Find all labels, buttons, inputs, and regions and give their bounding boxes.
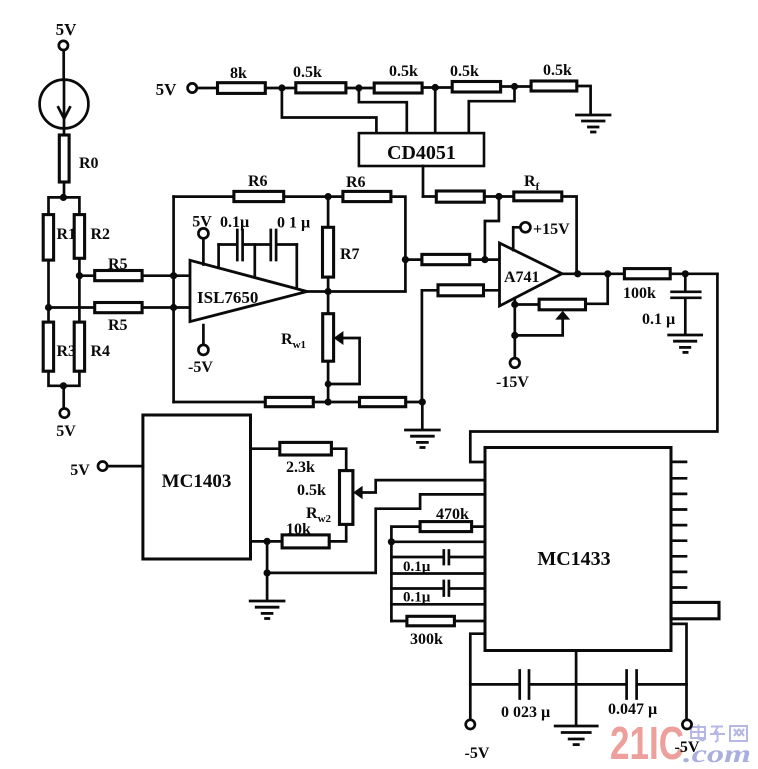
- svg-text:0.5k: 0.5k: [389, 63, 418, 80]
- capacitor 0.1u left bypass: [219, 214, 270, 277]
- svg-text:R2: R2: [91, 226, 111, 243]
- wire: [406, 401, 423, 404]
- wire MC1433 ground lead: [575, 651, 578, 726]
- wire: [484, 195, 514, 198]
- ground ladder right: [577, 115, 611, 132]
- node ladder D: [511, 83, 518, 90]
- svg-text:5V: 5V: [70, 462, 90, 479]
- node 5V ladder label: [156, 80, 178, 99]
- resistor stub MC1433 bottom right: [671, 602, 719, 618]
- wire -5V right lead: [671, 624, 687, 720]
- potentiometer A741 offset: [515, 274, 608, 336]
- resistor 0.5k third: [450, 63, 501, 92]
- wire bridge bottom bar: [49, 371, 80, 386]
- svg-text:R5: R5: [108, 317, 128, 334]
- svg-text:MC1433: MC1433: [537, 548, 610, 570]
- wire jog node to inverting input: [485, 197, 499, 260]
- svg-text:8k: 8k: [230, 65, 247, 82]
- node inverting input: [170, 272, 177, 279]
- wire feedback left vertical: [172, 197, 175, 402]
- potentiometer Rw2: [297, 471, 485, 525]
- resistor R6 right: [343, 174, 391, 202]
- wire bottom rail: [174, 401, 266, 404]
- svg-text:-5V: -5V: [188, 359, 213, 376]
- terminal 5V bottom of bridge: [60, 409, 69, 418]
- resistor R5 lower: [95, 303, 142, 335]
- capacitor 0.023u: [501, 671, 550, 722]
- pin stubs MC1433 right side: [671, 462, 686, 588]
- wire jog ladder B to CD4051: [359, 88, 407, 133]
- wire: [530, 683, 625, 686]
- watermark 21IC: [610, 717, 751, 769]
- node R1 to R5 bottom: [45, 304, 52, 311]
- resistor unlabeled rail right: [360, 397, 406, 406]
- svg-text:ISL7650: ISL7650: [197, 288, 258, 307]
- svg-text:300k: 300k: [410, 631, 443, 648]
- resistor 0.5k second: [374, 63, 422, 93]
- resistor Rf: [514, 173, 562, 201]
- wire: [142, 306, 190, 309]
- svg-text:0.1µ: 0.1µ: [220, 214, 249, 231]
- IC op-amp A741: [500, 243, 563, 306]
- wire A741 output: [562, 272, 624, 275]
- wire: [484, 289, 500, 292]
- potentiometer Rw1: [281, 292, 360, 403]
- IC MC1403: [143, 415, 251, 559]
- ground below MC1403: [250, 601, 284, 619]
- node rail right: [419, 398, 426, 405]
- svg-text:+15V: +15V: [533, 221, 570, 238]
- wire -15V lead: [513, 298, 516, 358]
- node pot left: [511, 301, 518, 308]
- resistor R7: [323, 197, 360, 292]
- wire: [670, 272, 717, 275]
- resistor CD4051 to A741: [436, 191, 484, 202]
- svg-text:0.5k: 0.5k: [543, 62, 572, 79]
- wire: [79, 274, 94, 277]
- resistor R1: [43, 215, 76, 261]
- node non-inverting input: [170, 304, 177, 311]
- terminal 5V ladder: [188, 83, 197, 92]
- ground below 0.1u cap: [669, 335, 702, 352]
- resistor A741 non-inverting input: [438, 285, 484, 296]
- wire: [405, 258, 422, 261]
- wire: [346, 87, 374, 90]
- watermark dianziwang glyphs: [691, 725, 747, 743]
- wire input resistor from CD4051: [423, 195, 436, 198]
- node ISL7650 output: [325, 288, 332, 295]
- capacitor 0.1u pin8: [391, 581, 485, 606]
- capacitor 0.1u output filter: [642, 274, 700, 335]
- svg-text:.com: .com: [683, 741, 751, 768]
- resistor 8k: [218, 65, 266, 93]
- svg-text:R6: R6: [346, 174, 366, 191]
- resistor A741 inverting input: [422, 254, 470, 264]
- node cap 0.1u tap: [682, 270, 689, 277]
- wire left bus: [390, 542, 393, 621]
- wire jog ladder D to CD4051: [469, 87, 515, 134]
- svg-text:0 023 µ: 0 023 µ: [501, 704, 550, 721]
- svg-text:5V: 5V: [156, 80, 178, 99]
- wire output ISL7650: [307, 290, 405, 293]
- wire bridge top bar: [49, 197, 80, 214]
- svg-text:CD4051: CD4051: [387, 142, 456, 164]
- current source I1: [40, 80, 89, 129]
- node R2 to R5 top: [76, 272, 83, 279]
- node on inverting input line: [481, 256, 488, 263]
- node MC1403 lower pin: [264, 538, 271, 545]
- wire ground tap: [266, 541, 269, 600]
- wire MC1433 pin5: [391, 540, 485, 543]
- terminal 5V MC1403: [70, 462, 143, 480]
- terminal +15V: [513, 221, 570, 250]
- wire: [63, 128, 66, 135]
- wire to MC1433 pin3: [267, 494, 485, 573]
- wire MC1433 pin9: [391, 603, 485, 606]
- node 5V top-left terminal label: [56, 20, 78, 39]
- ground below MC1433: [555, 726, 597, 745]
- wire A741 non-inverting elbow: [422, 290, 438, 402]
- node R6 junction: [325, 193, 332, 200]
- wire: [49, 306, 95, 309]
- svg-text:-5V: -5V: [465, 745, 490, 762]
- resistor R3: [43, 322, 76, 371]
- svg-text:MC1403: MC1403: [162, 471, 232, 492]
- svg-text:2.3k: 2.3k: [286, 459, 315, 476]
- node tap on R6 vertical: [402, 256, 409, 263]
- resistor 100k: [623, 269, 670, 302]
- wire: [265, 87, 296, 90]
- node output pot tap: [604, 270, 611, 277]
- wire: [78, 258, 81, 322]
- node output Rf: [574, 270, 581, 277]
- svg-text:5V: 5V: [56, 423, 76, 440]
- wire bottom cap line: [470, 683, 518, 686]
- capacitor 0.1u right bypass: [271, 215, 310, 289]
- ground below rail: [406, 430, 440, 448]
- node A741 summing: [495, 193, 502, 200]
- wire -5V left lead: [470, 634, 485, 720]
- wire CD4051 output: [422, 166, 425, 197]
- svg-text:-15V: -15V: [496, 374, 529, 391]
- wire: [501, 85, 531, 88]
- wire: [422, 86, 452, 89]
- resistor 0.5k fourth: [531, 62, 577, 91]
- svg-text:0.5k: 0.5k: [297, 482, 326, 499]
- svg-text:R5: R5: [108, 256, 128, 273]
- terminal 5V top-left: [59, 41, 68, 50]
- wire: [421, 402, 424, 430]
- wire: [174, 195, 234, 198]
- wire ladder C to CD4051: [434, 88, 437, 134]
- wire MC1433 pin7: [391, 572, 485, 575]
- IC op-amp ISL7650: [190, 260, 307, 321]
- wire jog ladder A to CD4051: [282, 88, 377, 133]
- wire: [63, 182, 66, 197]
- resistor R2: [74, 215, 110, 259]
- svg-text:0 1 µ: 0 1 µ: [277, 215, 310, 232]
- resistor R4: [74, 322, 110, 371]
- svg-text:A741: A741: [504, 269, 540, 286]
- node ladder C: [432, 84, 439, 91]
- node bus top: [388, 538, 395, 545]
- node gnd tap branch: [264, 569, 271, 576]
- node junction under R0: [60, 194, 67, 201]
- wire: [47, 260, 50, 322]
- svg-text:0.5k: 0.5k: [293, 64, 322, 81]
- node Rw1 bottom on rail: [325, 398, 332, 405]
- node ladder B: [355, 84, 362, 91]
- svg-text:R0: R0: [79, 155, 99, 172]
- wire: [142, 274, 190, 277]
- wire to ground: [577, 86, 591, 115]
- IC MC1433: [485, 448, 671, 651]
- resistor 0.5k first: [293, 64, 346, 93]
- svg-text:R4: R4: [91, 343, 111, 360]
- capacitor 0.1u pin6: [391, 551, 485, 576]
- svg-text:0.1 µ: 0.1 µ: [642, 311, 675, 328]
- node ladder A: [278, 84, 285, 91]
- node wiper join: [511, 332, 518, 339]
- resistor unlabeled rail left: [265, 397, 313, 406]
- svg-text:R7: R7: [340, 246, 360, 263]
- svg-text:0.047 µ: 0.047 µ: [608, 701, 657, 718]
- node junction above bottom 5V: [60, 382, 67, 389]
- IC CD4051: [359, 133, 484, 166]
- wire: [197, 87, 218, 90]
- wire: [62, 386, 65, 409]
- svg-text:5V: 5V: [56, 20, 78, 39]
- resistor R6 left: [234, 173, 284, 202]
- terminal -5V op-amp: [188, 325, 213, 376]
- terminal -5V right: [675, 720, 700, 756]
- svg-text:100k: 100k: [623, 285, 656, 302]
- resistor 300k: [391, 616, 485, 648]
- resistor 10k: [251, 521, 347, 548]
- terminal -5V left: [465, 720, 490, 762]
- wire: [284, 195, 343, 198]
- resistor 2.3k: [251, 442, 347, 476]
- resistor R0: [59, 135, 98, 182]
- wire Rf right to output: [562, 197, 577, 274]
- svg-text:R6: R6: [248, 173, 268, 190]
- wire: [470, 258, 500, 261]
- capacitor 0.047u: [608, 671, 657, 719]
- wire: [313, 401, 359, 404]
- wire: [638, 683, 687, 686]
- resistor 470k: [391, 506, 485, 542]
- terminal -15V: [496, 358, 529, 391]
- wire: [62, 50, 65, 80]
- wire R6 right end down to output line: [391, 197, 406, 292]
- svg-text:0.5k: 0.5k: [450, 63, 479, 80]
- resistor R5 upper: [95, 256, 142, 281]
- terminal 5V op-amp: [192, 214, 212, 265]
- wire long feedback to MC1433: [470, 274, 717, 462]
- svg-text:21IC: 21IC: [610, 717, 684, 769]
